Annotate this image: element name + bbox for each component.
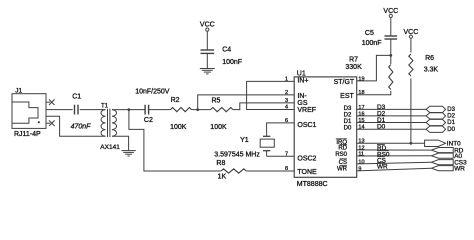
svg-text:4: 4 <box>285 105 288 111</box>
node junction at secondary top <box>127 108 130 111</box>
node junction R6/IRQ <box>410 142 413 145</box>
svg-text:WR: WR <box>454 165 465 172</box>
wire C4 to ground <box>206 53 208 68</box>
svg-text:3: 3 <box>285 98 288 104</box>
svg-text:U1: U1 <box>297 71 306 78</box>
svg-text:ST/GT: ST/GT <box>334 79 355 86</box>
svg-text:11: 11 <box>358 151 364 157</box>
wire D3 pin 17 <box>357 108 426 110</box>
svg-text:C5: C5 <box>365 30 374 37</box>
svg-text:R7: R7 <box>349 57 358 64</box>
svg-text:8: 8 <box>285 166 288 172</box>
wire C1 to T1 primary <box>80 109 106 111</box>
svg-text:D1: D1 <box>344 119 352 125</box>
svg-text:MT8888C: MT8888C <box>297 181 328 188</box>
svg-text:10nF/250V: 10nF/250V <box>135 89 170 96</box>
ground (transformer) <box>121 150 135 152</box>
port WR <box>432 166 454 171</box>
wire RD pin 12 <box>357 149 432 151</box>
svg-text:EST: EST <box>340 93 354 100</box>
port D3 <box>426 106 446 112</box>
svg-text:3.597545 MHz: 3.597545 MHz <box>214 152 260 159</box>
resistor R6 <box>409 54 413 76</box>
capacitor C4 <box>201 49 215 51</box>
ground (C4) <box>200 68 215 70</box>
port D2 <box>426 113 446 119</box>
wire D0 pin 14 <box>357 128 426 130</box>
port RD <box>432 148 454 153</box>
svg-text:OSC1: OSC1 <box>297 122 316 129</box>
wire WR pin 9 <box>357 168 432 171</box>
svg-text:WR: WR <box>377 163 388 170</box>
svg-text:AX141: AX141 <box>100 144 120 151</box>
svg-text:J1: J1 <box>15 88 22 95</box>
port CS3 <box>432 160 454 165</box>
J1 pin stub (NC bottom) <box>46 122 50 124</box>
wire R6 to IRQ line <box>410 79 412 144</box>
wire J1 to C1 <box>46 109 73 111</box>
svg-text:D2: D2 <box>447 114 455 120</box>
VCC (R6 pull-up) <box>409 35 412 38</box>
wire R8 to TONE pin 8 <box>246 170 294 172</box>
svg-text:9: 9 <box>358 166 361 172</box>
wire RS0 pin 11 <box>357 155 432 157</box>
wire VCC to C5 <box>390 18 392 36</box>
svg-text:R2: R2 <box>171 97 180 104</box>
svg-text:TONE: TONE <box>297 169 317 176</box>
resistor R5 <box>211 108 234 112</box>
wire VCC to R6 <box>410 39 412 53</box>
wire IN+ pin 1 to VREF pin 4 bracket <box>247 81 295 109</box>
wire IRQ pin 13 to INT0 <box>357 142 425 144</box>
svg-text:470nF: 470nF <box>71 124 92 131</box>
svg-text:2: 2 <box>285 90 288 96</box>
svg-text:D2: D2 <box>344 112 352 118</box>
connector J1 <box>12 94 46 129</box>
transformer T1 <box>101 110 106 137</box>
port D0 <box>426 126 446 132</box>
wire D1 pin 15 <box>357 122 426 124</box>
crystal Y1 <box>263 135 270 137</box>
wire junction to bottom rail <box>129 110 221 171</box>
svg-text:6: 6 <box>285 118 288 124</box>
svg-text:3.3K: 3.3K <box>424 66 439 73</box>
svg-text:T1: T1 <box>101 103 109 109</box>
VCC (C4 decoupling) <box>206 28 209 31</box>
svg-text:RD: RD <box>338 146 347 152</box>
svg-text:100nF: 100nF <box>222 59 242 66</box>
svg-text:100nF: 100nF <box>362 40 382 47</box>
svg-text:330K: 330K <box>345 64 362 71</box>
wire ST/GT pin 19 to node A <box>357 55 391 81</box>
no-connect X (bottom) <box>49 120 55 126</box>
resistor R7 <box>389 65 393 90</box>
node A junction <box>389 54 392 57</box>
wire R2 to R5 <box>192 109 211 111</box>
wire T1 secondary top to C2 <box>112 109 145 111</box>
wire crystal to OSC2 pin 7 <box>267 155 295 157</box>
wire R5 to GS pin 3 <box>233 103 294 110</box>
VCC (C5) <box>389 14 392 17</box>
svg-text:RJ11-4P: RJ11-4P <box>14 131 41 138</box>
svg-text:100K: 100K <box>170 124 187 131</box>
wire junction up to IN- pin 2 <box>198 95 295 110</box>
node junction R2/R5 <box>196 108 199 111</box>
svg-text:1: 1 <box>285 77 288 83</box>
wire OSC1 pin 6 to crystal <box>267 123 295 136</box>
J1 pin stub (NC top) <box>46 101 50 103</box>
svg-text:VCC: VCC <box>200 22 215 29</box>
svg-text:100K: 100K <box>210 124 227 131</box>
port INT0 <box>425 140 446 146</box>
svg-text:D3: D3 <box>344 106 352 112</box>
wire CS pin 10 <box>357 162 432 164</box>
wire C2 to R2 <box>149 109 171 111</box>
wire J1 to T1 primary bottom <box>46 116 106 136</box>
svg-text:VREF: VREF <box>297 107 316 114</box>
svg-text:7: 7 <box>285 151 288 157</box>
svg-text:D0: D0 <box>377 124 386 131</box>
capacitor C2 <box>144 105 146 115</box>
no-connect X (top) <box>49 99 55 105</box>
port A0 <box>432 153 454 158</box>
capacitor C1 <box>74 105 76 115</box>
svg-text:C4: C4 <box>222 46 231 53</box>
port D1 <box>426 119 446 125</box>
svg-text:R8: R8 <box>216 160 225 167</box>
svg-text:OSC2: OSC2 <box>297 156 316 163</box>
svg-text:10: 10 <box>358 159 364 165</box>
svg-text:C2: C2 <box>144 117 153 124</box>
svg-text:D1: D1 <box>447 120 455 126</box>
svg-text:D0: D0 <box>447 127 455 133</box>
chip U1 MT8888C <box>294 77 357 177</box>
wire VCC to C4 <box>206 31 208 50</box>
svg-text:IN+: IN+ <box>297 78 308 85</box>
svg-text:C1: C1 <box>72 93 81 100</box>
svg-text:D3: D3 <box>447 107 455 113</box>
resistor R2 <box>171 108 192 112</box>
svg-text:RS0: RS0 <box>335 152 347 158</box>
wire C5 to node A <box>390 39 392 64</box>
svg-text:WR: WR <box>337 167 348 173</box>
wire R7 to EST pin 18 <box>357 91 391 95</box>
svg-text:R6: R6 <box>425 55 434 62</box>
svg-text:VCC: VCC <box>383 8 398 15</box>
svg-text:GS: GS <box>297 100 307 107</box>
wire T1 secondary bottom to ground <box>112 136 129 150</box>
wire D2 pin 16 <box>357 115 426 117</box>
svg-text:VCC: VCC <box>404 29 419 36</box>
svg-text:1K: 1K <box>218 173 227 180</box>
resistor R8 <box>221 169 246 173</box>
svg-text:14: 14 <box>358 125 364 131</box>
svg-text:Y1: Y1 <box>240 137 249 144</box>
svg-text:R5: R5 <box>212 98 221 105</box>
capacitor C5 <box>385 35 398 37</box>
svg-text:D0: D0 <box>344 126 352 132</box>
